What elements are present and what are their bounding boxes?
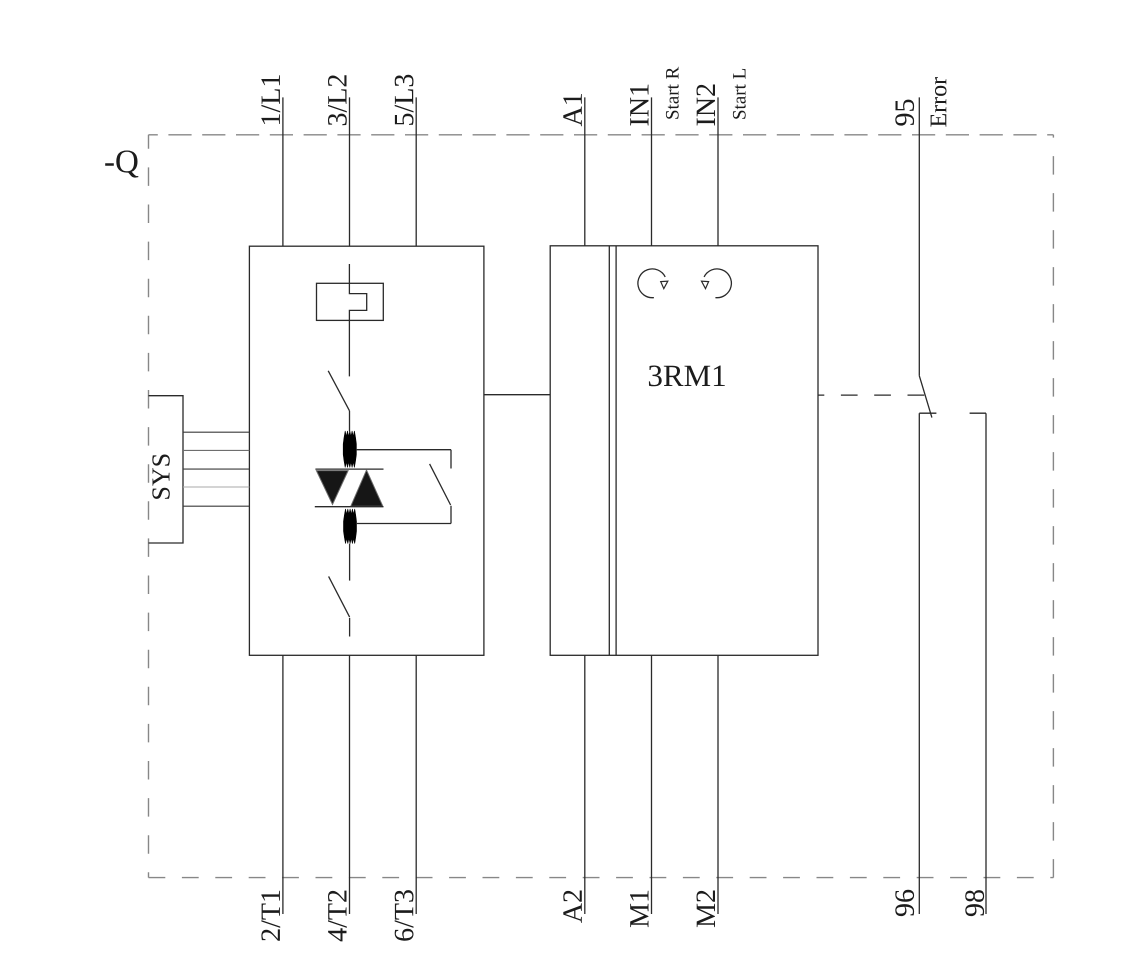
label 6/T3 bbox=[395, 890, 414, 941]
switch contact blade upper bbox=[328, 371, 349, 411]
arrowhead clockwise bbox=[661, 281, 668, 288]
label A2 bbox=[563, 891, 582, 923]
label Start L bbox=[733, 69, 746, 119]
terminal line IN2 bbox=[717, 97, 719, 245]
terminal line A2 bbox=[584, 655, 586, 914]
enclosure dashed border right edge bbox=[1052, 135, 1054, 878]
label 4/T2 bbox=[328, 891, 347, 942]
thyristor left (down pointing) bbox=[316, 471, 348, 505]
SYS bus line 3 bbox=[183, 468, 249, 470]
terminal line 4/T2 bbox=[349, 655, 351, 914]
label 96 bbox=[895, 890, 914, 916]
terminal line IN1 bbox=[651, 97, 653, 245]
enclosure dashed border bottom edge bbox=[149, 877, 1054, 879]
label IN1 bbox=[630, 85, 649, 126]
left power block (switching element) outline bbox=[249, 246, 484, 655]
control block divider line 1 bbox=[608, 246, 610, 656]
label A1 bbox=[563, 94, 582, 126]
label 98 bbox=[965, 890, 984, 916]
wire left block to control block bbox=[484, 394, 550, 396]
switch contact blade lower bbox=[329, 576, 350, 617]
label 2/T1 bbox=[261, 891, 280, 941]
internal pole line top (3/L2 into block) bbox=[349, 264, 366, 376]
terminal line 98 bbox=[985, 413, 987, 914]
terminal 98 tick bbox=[970, 412, 986, 414]
error contact blade 95-96 bbox=[919, 375, 932, 417]
terminal line 95 bbox=[918, 97, 920, 375]
bypass branch upper lead bbox=[450, 450, 452, 469]
terminal line M1 bbox=[651, 655, 653, 914]
label 3/L2 bbox=[328, 75, 347, 125]
wire below lower blob bbox=[349, 544, 351, 581]
label M1 bbox=[630, 891, 649, 927]
terminal line 6/T3 bbox=[415, 655, 417, 914]
label 3RM1 bbox=[649, 366, 725, 387]
gate wire upper to bypass branch bbox=[356, 449, 451, 451]
thyristor top bar bbox=[315, 468, 383, 470]
bypass contact blade bbox=[430, 464, 451, 505]
bypass branch lower lead bbox=[450, 506, 452, 524]
SYS bus line 4 bbox=[183, 486, 249, 488]
label 5/L3 bbox=[395, 75, 414, 125]
wire below upper contact bbox=[349, 411, 351, 432]
rotation arrow counterclockwise (Start L) bbox=[704, 269, 731, 298]
rotation arrow clockwise (Start R) bbox=[638, 269, 665, 298]
label -Q bbox=[105, 151, 138, 178]
gate wire lower to bypass branch bbox=[356, 523, 451, 525]
label 95 bbox=[895, 100, 914, 126]
label Start R bbox=[666, 67, 679, 119]
terminal line 5/L3 bbox=[415, 97, 417, 246]
terminal 96 tick bbox=[919, 412, 936, 414]
label 1/L1 bbox=[261, 75, 280, 124]
thermal element blob upper bbox=[343, 431, 356, 468]
label Error bbox=[931, 77, 947, 127]
control block 3RM1 outline bbox=[550, 246, 818, 656]
terminal line 3/L2 bbox=[349, 97, 351, 246]
enclosure dashed border top edge bbox=[149, 134, 1054, 136]
terminal line M2 bbox=[717, 655, 719, 914]
wire below lower contact bbox=[349, 618, 351, 637]
terminal line A1 bbox=[584, 97, 586, 245]
terminal line 96 bbox=[918, 413, 920, 914]
SYS bus line 5 bbox=[183, 505, 249, 507]
thermal element blob lower bbox=[344, 509, 357, 544]
thyristor right (up pointing) bbox=[351, 470, 383, 506]
SYS bus line 1 bbox=[183, 431, 249, 433]
arrowhead counterclockwise bbox=[702, 281, 709, 288]
thyristor bottom bar bbox=[315, 506, 384, 508]
label IN2 bbox=[697, 85, 716, 126]
enclosure dashed border left edge bbox=[148, 135, 150, 878]
label SYS bbox=[152, 455, 170, 499]
label M2 bbox=[697, 891, 716, 928]
SYS bus line 2 bbox=[183, 449, 249, 451]
SYS interface box bbox=[149, 396, 184, 543]
terminal line 2/T1 bbox=[282, 655, 284, 914]
terminal line 1/L1 bbox=[282, 97, 284, 246]
current sensor rectangle bbox=[317, 283, 384, 320]
dashed control wire to error contact bbox=[818, 394, 924, 396]
control block divider line 2 bbox=[615, 246, 617, 656]
